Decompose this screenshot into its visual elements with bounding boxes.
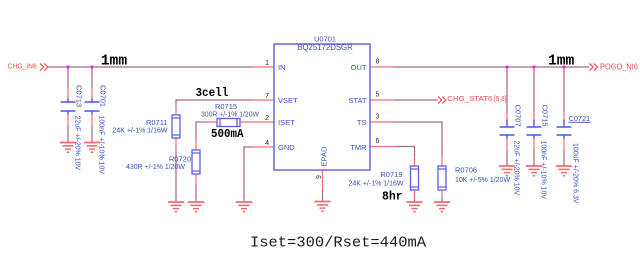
wire ISET horizontal [196,121,208,123]
wire TMR corner down to R0719 [414,146,416,156]
C0715 top pin [533,112,535,120]
C0701 top pin [91,88,93,98]
svg-text:22uF +/-20% 10V: 22uF +/-20% 10V [513,141,520,196]
svg-text:C0707: C0707 [514,105,523,127]
svg-text:OUT: OUT [351,63,367,72]
resistor R0719 symbol [411,166,419,190]
svg-text:C0721: C0721 [569,114,591,123]
wire R0706 bottom to ground [441,197,443,202]
capacitor C0707 symbol [500,120,515,140]
R0720 top pin [195,140,197,150]
svg-text:1mm: 1mm [101,53,128,69]
C0713 top pin [67,88,69,98]
ground (R0719) [407,202,423,212]
svg-text:IN: IN [278,63,286,72]
wire ISET corner down to R0720 [195,121,197,140]
svg-text:BQ25172DSGR: BQ25172DSGR [297,43,353,52]
capacitor C0713 symbol [61,98,76,115]
svg-text:100nF +/-10% 10V: 100nF +/-10% 10V [98,116,105,175]
wire C0713 upper drop [67,67,69,88]
pin 7 VSET stub [252,99,274,101]
wire C0713 lower to ground [67,125,69,142]
svg-text:TS: TS [357,118,367,127]
C0713 bottom pin [67,115,69,125]
svg-text:24K +/-1% 1/16W: 24K +/-1% 1/16W [112,128,167,135]
C0721 bottom pin [563,139,565,150]
ground (C0715) [526,166,542,176]
wire R0719 bottom to ground [414,197,416,202]
svg-text:C0713: C0713 [75,85,84,107]
wire C0701 lower to ground [91,125,93,142]
wire C0707 upper drop [506,67,508,112]
svg-text:2: 2 [265,115,269,122]
svg-text:7: 7 [265,93,269,100]
ground (GND pin) [236,202,252,212]
svg-text:5: 5 [376,92,380,99]
pin 2 ISET stub + R0715 right pin [240,121,274,123]
pin 1 IN stub [252,66,274,68]
svg-text:R0720: R0720 [169,155,191,164]
pin 8 OUT stub [370,66,393,68]
svg-text:6: 6 [376,138,380,145]
wire STAT horizontal [394,99,438,101]
svg-text:500mA: 500mA [211,128,244,141]
op-amp U1 body: IC U0701 BQ25172DSGR rectangle [274,44,370,170]
junction dot at C0715 tap [533,66,536,69]
R0706 top pin [441,156,443,166]
C0707 bottom pin [506,139,508,150]
svg-text:STAT: STAT [348,96,366,105]
svg-text:3cell: 3cell [196,87,229,100]
ground (C0713) [60,143,76,153]
wire TS horizontal [393,121,442,123]
svg-text:C0715: C0715 [541,105,550,127]
C0707 top pin [506,112,508,120]
off-page connector chevron CHG_STAT6 [438,96,446,103]
svg-text:R0715: R0715 [215,102,237,111]
resistor R0720 symbol [192,150,200,174]
svg-text:100nF +/-10% 10V: 100nF +/-10% 10V [540,141,547,200]
wire TS corner down to R0706 [441,121,443,156]
wire C0701 upper drop [91,67,93,88]
svg-text:CHG_IN6: CHG_IN6 [8,62,37,71]
svg-text:24K +/-1% 1/16W: 24K +/-1% 1/16W [348,181,403,188]
ground (R0706) [434,202,450,212]
R0719 bottom pin [414,190,416,197]
R0711 top pin [175,107,177,115]
pin 9 EPAD stub [322,170,324,190]
svg-text:300R +/-1% 1/20W: 300R +/-1% 1/20W [201,112,259,119]
pin 4 GND stub [252,146,274,148]
R0706 bottom pin [441,190,443,197]
capacitor C0721 symbol [557,120,572,140]
pin 5 STAT stub [370,99,394,101]
svg-text:CHG_STAT6: CHG_STAT6 [447,94,492,103]
pin 6 TMR stub [370,146,393,148]
ground (C0707) [499,166,515,176]
junction dot at C0721 tap [563,66,566,69]
R0719 top pin [414,156,416,166]
wire C0721 lower to ground [563,150,565,166]
junction dot at C0713 tap [67,66,70,69]
svg-text:8: 8 [376,59,380,66]
wire EPAD to ground [322,190,324,201]
wire GND pin corner [244,146,252,148]
svg-text:1mm: 1mm [548,53,575,69]
wire C0707 lower to ground [506,150,508,166]
wire VSET corner down to R0711 [175,99,177,107]
svg-text:R0711: R0711 [146,118,168,127]
wire VSET horizontal [176,99,252,101]
svg-text:POGO_NI6: POGO_NI6 [600,63,639,72]
off-page connector chevron CHG_IN6 [40,63,48,70]
wire C0721 upper drop [563,67,565,112]
svg-text:3: 3 [376,114,380,121]
R0720 bottom pin [195,174,197,184]
capacitor C0701 symbol [85,98,100,115]
svg-text:Iset=300/Rset=440mA: Iset=300/Rset=440mA [250,236,426,252]
C0715 bottom pin [533,139,535,150]
pin 3 TS stub [370,121,393,123]
svg-text:R0706: R0706 [455,166,477,175]
off-page connector chevron POGO_NI6 [590,63,598,70]
ground (C0721) [556,166,572,176]
wire TMR horizontal [393,146,415,148]
wire R0720 bottom to ground [195,184,197,202]
svg-text:9: 9 [316,175,323,179]
junction dot at C0701 tap [91,66,94,69]
R0711 bottom pin [175,138,177,146]
ground (R0720) [188,202,204,212]
svg-text:430R +/-1% 1/20W: 430R +/-1% 1/20W [126,164,185,171]
svg-text:1: 1 [265,60,269,67]
svg-text:8hr: 8hr [382,191,403,204]
C0701 bottom pin [91,115,93,125]
wire CHG_IN6 main horizontal [49,66,253,68]
svg-text:4: 4 [265,140,269,147]
svg-text:ISET: ISET [278,118,295,127]
ground (R0711) [168,202,184,212]
wire OUT to POGO_NI6 [393,66,589,68]
resistor R0711 symbol [172,115,180,138]
svg-text:100uF +/-20% 6.3V: 100uF +/-20% 6.3V [572,143,579,204]
svg-text:GND: GND [278,143,295,152]
resistor R0706 symbol [438,166,446,190]
wire R0711 bottom to ground [175,146,177,202]
svg-text:R0719: R0719 [380,170,402,179]
svg-text:EPAD: EPAD [320,146,329,166]
C0721 top pin [563,112,565,120]
junction dot at C0707 tap [506,66,509,69]
resistor R0715 symbol [217,119,240,127]
wire C0715 upper drop [533,67,535,112]
wire GND pin down to ground [243,146,245,201]
svg-text:TMR: TMR [350,143,367,152]
capacitor C0715 symbol [527,120,542,140]
svg-text:10K +/-5% 1/20W: 10K +/-5% 1/20W [455,177,510,184]
svg-text:C0701: C0701 [99,85,108,107]
ground (C0701) [84,143,100,153]
svg-text:[5,8]: [5,8] [494,94,507,103]
svg-text:VSET: VSET [278,96,298,105]
R0715 left pin [208,121,217,123]
wire C0715 lower to ground [533,150,535,166]
ground (EPAD) [315,202,331,212]
